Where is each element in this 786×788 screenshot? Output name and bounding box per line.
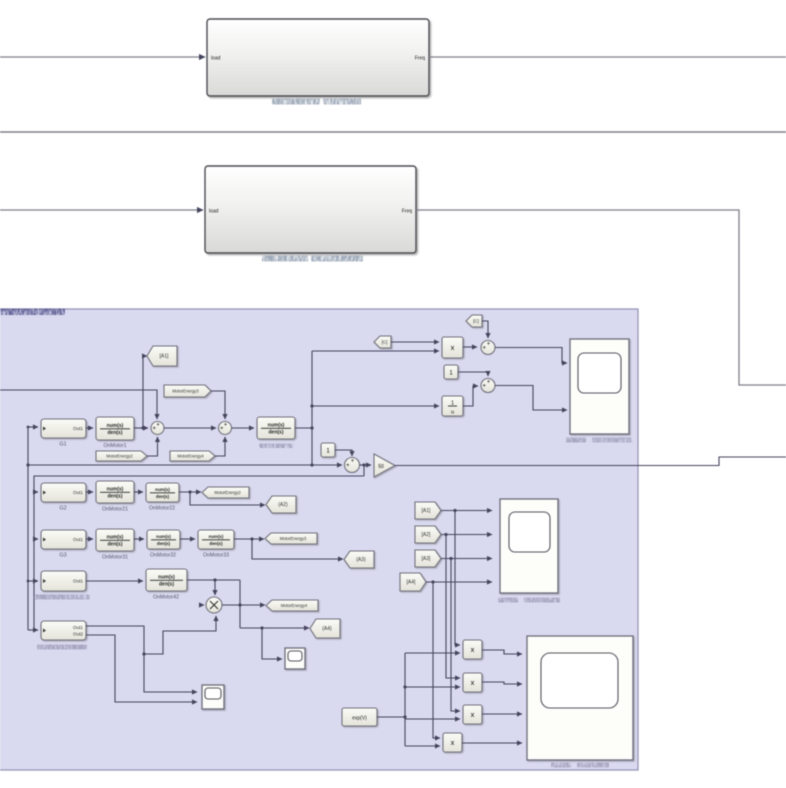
vertical x240 down bbox=[239, 580, 241, 628]
svg-text:Freq: Freq bbox=[415, 56, 426, 62]
svg-text:den(s): den(s) bbox=[159, 582, 174, 588]
wire G2 to OnMotor21 bbox=[86, 491, 93, 493]
transfer fn OnMotor21 bbox=[96, 481, 134, 503]
svg-text:MotorEnergy4: MotorEnergy4 bbox=[281, 603, 308, 608]
svg-text:num(s): num(s) bbox=[107, 534, 124, 540]
subsystem storage SOC state bbox=[41, 621, 86, 640]
junction bus r4 bbox=[27, 580, 30, 583]
product X4 bbox=[443, 733, 462, 752]
wire OnMotor33 to goto MotorEnergy3 bbox=[234, 538, 264, 540]
svg-text:50: 50 bbox=[378, 464, 384, 470]
exp block bbox=[342, 708, 377, 726]
wire to divide block input bbox=[312, 405, 439, 407]
goto tag A1 bbox=[147, 346, 177, 366]
junction to goto A1 bbox=[141, 426, 144, 429]
svg-text:[A3]: [A3] bbox=[422, 556, 432, 562]
svg-text:den(s): den(s) bbox=[269, 430, 284, 436]
wire OnMotor1 to sum1 bbox=[134, 427, 148, 429]
svg-text:num(s): num(s) bbox=[158, 574, 175, 580]
wire OnMotor42 out bbox=[187, 579, 240, 581]
junction x240-output bbox=[238, 603, 241, 606]
wire out of block1 Freq bbox=[429, 56, 786, 58]
svg-text:+: + bbox=[487, 342, 491, 348]
svg-text:[A1]: [A1] bbox=[160, 354, 170, 360]
svg-text:G3: G3 bbox=[59, 553, 66, 559]
wire x240 to goto A4 bbox=[240, 627, 309, 629]
svg-text:den(s): den(s) bbox=[209, 541, 223, 546]
feedback return y=476 bbox=[34, 476, 364, 630]
goto tag A2 bbox=[266, 496, 296, 513]
from tag MotorEnergy3 (row1) bbox=[164, 385, 211, 397]
junction r5 out1 bbox=[142, 652, 145, 655]
subsystem G1 bbox=[41, 419, 86, 438]
wire G3 to OnMotor31 bbox=[86, 538, 93, 540]
goto tag MotorEnergy2 bbox=[202, 487, 249, 498]
wire r5 out1 branch to scope5 p1 bbox=[144, 654, 197, 692]
transfer fn OnMotor32 bbox=[147, 530, 180, 549]
svg-text:exp(V): exp(V) bbox=[352, 716, 367, 722]
wire A4 to scope2 p4 bbox=[426, 581, 492, 583]
wire divide to sum4 left bbox=[463, 386, 478, 406]
svg-text:[C]: [C] bbox=[473, 319, 479, 324]
svg-text:OnMotor1: OnMotor1 bbox=[103, 443, 126, 449]
wire into subsystem block2 (load) bbox=[0, 209, 203, 211]
wire bus to G2 bbox=[34, 491, 38, 493]
goto tag A3 bbox=[344, 551, 374, 568]
svg-text:num(s): num(s) bbox=[209, 534, 224, 539]
product X3 bbox=[463, 705, 482, 724]
wire C1 to multiply bbox=[391, 341, 439, 343]
scope2 block bbox=[500, 499, 558, 593]
wire Xt to sum3 bbox=[463, 346, 477, 348]
wire left stub into Xc bbox=[200, 604, 204, 606]
sum junction sum1 bbox=[151, 422, 164, 435]
wire top input into sum1 top bbox=[0, 390, 157, 419]
goto tag MotorEnergy3 bbox=[265, 533, 317, 544]
label scope3 part2 bbox=[577, 763, 609, 768]
divide block 1/u bbox=[442, 396, 463, 416]
subsystem motor MPPT state bbox=[41, 571, 86, 591]
from tag A1 bbox=[415, 502, 441, 519]
svg-text:Out2: Out2 bbox=[73, 631, 83, 636]
wire sum5 to gain bbox=[360, 464, 372, 466]
svg-text:+: + bbox=[224, 423, 228, 429]
wire X2 to scope3 p2 bbox=[482, 682, 522, 684]
goto tag A4 bbox=[310, 619, 340, 638]
wire bus to R5 bbox=[28, 629, 38, 631]
junction onmotor42 out a bbox=[213, 578, 216, 581]
svg-text:den(s): den(s) bbox=[108, 430, 123, 436]
label wind penetration 25% bbox=[259, 444, 293, 449]
junction TF25 out bbox=[310, 426, 313, 429]
bundle wire A2 down to X2 bbox=[446, 535, 460, 679]
junction a4-scope branch bbox=[260, 626, 263, 629]
subsystem block1 (wind 29%, no freq regulation) bbox=[207, 19, 429, 96]
scope5 small bbox=[202, 685, 224, 709]
svg-text:OnMotor22: OnMotor22 bbox=[149, 506, 175, 512]
svg-text:[A4]: [A4] bbox=[407, 580, 417, 586]
svg-text:G1: G1 bbox=[59, 442, 66, 448]
feedback horizontal y=465 to sum5 bbox=[28, 464, 342, 466]
wire OnMotor32 to OnMotor33 bbox=[180, 538, 195, 540]
svg-text:num(s): num(s) bbox=[107, 486, 124, 492]
wire exp to X1 in2 bbox=[405, 652, 460, 654]
junction feedback at sum5 out bbox=[362, 463, 365, 466]
wire bus to G3 bbox=[34, 538, 38, 540]
svg-text:Out1: Out1 bbox=[73, 490, 83, 495]
svg-text:(A4): (A4) bbox=[322, 626, 332, 632]
svg-text:x: x bbox=[451, 343, 455, 352]
vertical TF25 branch bbox=[311, 351, 313, 465]
svg-text:+: + bbox=[156, 423, 160, 429]
wire exp to X4 in2 bbox=[405, 745, 440, 747]
transfer fn OnMotor1 bbox=[96, 417, 134, 440]
junction row3 branch bbox=[250, 537, 253, 540]
svg-text:den(s): den(s) bbox=[108, 494, 123, 500]
wire R5 out1 path to Xc bottom bbox=[86, 616, 216, 654]
svg-text:Out1: Out1 bbox=[73, 625, 83, 630]
svg-text:Freq: Freq bbox=[402, 209, 413, 215]
wire OnMotor21 to OnMotor22 bbox=[134, 491, 143, 493]
svg-text:OnMotor31: OnMotor31 bbox=[102, 555, 128, 561]
wire into subsystem block1 (load) bbox=[0, 56, 205, 58]
constant block 1a bbox=[444, 365, 458, 379]
transfer fn OnMotor33 bbox=[198, 530, 234, 549]
constant block 1b bbox=[321, 443, 335, 457]
wire A2 to scope2 p2 bbox=[441, 534, 492, 536]
svg-text:x: x bbox=[471, 645, 475, 654]
svg-text:den(s): den(s) bbox=[108, 542, 123, 548]
junction a1 down bbox=[453, 509, 456, 512]
title: penetration 29% part1 bbox=[0, 309, 38, 316]
label: wind penetration 25% part2 bbox=[311, 256, 363, 262]
wire R4 to OnMotor42 bbox=[86, 580, 143, 582]
label scope3 part1 bbox=[551, 763, 571, 768]
transfer fn wind25 bbox=[257, 417, 295, 439]
wire const1a to sum4 top bbox=[458, 372, 488, 376]
product X2 bbox=[463, 673, 482, 692]
svg-text:x: x bbox=[471, 678, 475, 687]
sum junction sum2 bbox=[219, 422, 232, 435]
sum junction sum3 bbox=[481, 341, 495, 355]
wire G1 to OnMotor1 bbox=[86, 427, 93, 429]
svg-text:(A3): (A3) bbox=[356, 557, 366, 563]
wire X4 to scope3 p4 bbox=[462, 742, 522, 744]
wire branch to scope4 bbox=[262, 628, 282, 659]
svg-text:x: x bbox=[471, 710, 475, 719]
from tag MotorEnergy4 (row1) bbox=[170, 451, 215, 461]
wire gain output exits right bbox=[395, 457, 786, 466]
wire bus to G1 bbox=[28, 426, 38, 428]
junction a2 down bbox=[444, 533, 447, 536]
svg-text:OnMotor42: OnMotor42 bbox=[153, 595, 179, 601]
svg-text:(A2): (A2) bbox=[278, 502, 288, 508]
exp vertical distribution bbox=[404, 653, 406, 746]
subsystem block2 (wind 25%, MPPT) bbox=[205, 166, 416, 253]
wire sum3 to scope1 port1 bbox=[495, 348, 567, 364]
svg-text:[C]: [C] bbox=[382, 340, 388, 345]
wire exp to X3 in2 bbox=[405, 718, 460, 720]
wire branch to goto A2 bbox=[190, 492, 265, 505]
svg-text:MotorEnergy2: MotorEnergy2 bbox=[106, 454, 133, 459]
label scope1 part1 bbox=[566, 438, 586, 443]
lavender subsystem area background bbox=[0, 309, 638, 770]
from tag C1 bbox=[374, 336, 391, 348]
wire X1 to scope3 p1 bbox=[482, 650, 522, 654]
label: wind penetration 29% part2 bbox=[323, 99, 361, 105]
left bus vertical bbox=[27, 427, 29, 630]
wire branch to goto A3 bbox=[252, 539, 343, 559]
subsystem G3 bbox=[41, 530, 86, 549]
junction exp x2 bbox=[403, 685, 406, 688]
svg-text:MotorEnergy2: MotorEnergy2 bbox=[214, 490, 241, 495]
title: penetration 29% part2 bbox=[39, 309, 65, 316]
wire sum2 to TF25 bbox=[232, 427, 255, 429]
wire to multiply upper-2 input bbox=[312, 350, 439, 352]
from tag MotorEnergy2 (row1) bbox=[96, 451, 147, 461]
svg-text:den(s): den(s) bbox=[157, 541, 171, 546]
svg-text:load: load bbox=[211, 56, 221, 62]
svg-text:Out1: Out1 bbox=[73, 426, 83, 431]
from tag A2 bbox=[415, 526, 441, 543]
feedback drop from sum5 output bbox=[363, 465, 365, 476]
svg-text:MotorEnergy3: MotorEnergy3 bbox=[172, 389, 199, 394]
product junction Xc bbox=[206, 597, 222, 613]
svg-text:+: + bbox=[346, 463, 350, 469]
junction at y406 bbox=[310, 404, 313, 407]
svg-text:OnMotor32: OnMotor32 bbox=[150, 553, 176, 559]
scope3 block bbox=[527, 636, 633, 760]
label: wind penetration 29% part1 bbox=[272, 99, 320, 105]
junction a4 down bbox=[431, 580, 434, 583]
svg-text:OnMotor21: OnMotor21 bbox=[102, 507, 128, 513]
wire MotorEnergy3 to sum2 top bbox=[211, 391, 225, 419]
wire exp output bbox=[377, 716, 405, 718]
wire sum4 to scope1 port2 bbox=[495, 386, 567, 411]
svg-text:[A2]: [A2] bbox=[422, 532, 432, 538]
bundle wire A4 down to X4 bbox=[433, 582, 440, 738]
transfer fn OnMotor31 bbox=[96, 529, 134, 551]
bundle wire A1 down to X1 bbox=[455, 511, 460, 646]
wire MotorEnergy2 to sum1 bottom bbox=[147, 437, 158, 456]
label scope2 part1 bbox=[498, 598, 518, 603]
wire into Xc top bbox=[214, 580, 216, 595]
svg-text:MotorEnergy4: MotorEnergy4 bbox=[177, 454, 204, 459]
sum junction sum5 bbox=[345, 458, 360, 473]
scope1 block bbox=[570, 339, 629, 434]
label motor MPPT state bbox=[34, 595, 90, 600]
from tag A4 bbox=[400, 573, 426, 591]
long horizontal wire y=132 bbox=[0, 131, 786, 133]
label scope1 part2 bbox=[592, 438, 632, 443]
scope4 small bbox=[285, 648, 305, 669]
goto tag MotorEnergy4 bbox=[266, 600, 318, 611]
wire A1 to scope2 p1 bbox=[441, 510, 492, 512]
product block Xt bbox=[442, 337, 463, 358]
svg-text:num(s): num(s) bbox=[107, 423, 124, 429]
wire OnMotor31 to OnMotor32 bbox=[134, 538, 144, 540]
wire A3 to scope2 p3 bbox=[441, 558, 492, 560]
wire out of block2 Freq going right then down bbox=[416, 210, 786, 385]
label scope2 part2 bbox=[524, 598, 560, 603]
label: wind penetration 25% part1 bbox=[262, 256, 308, 262]
wire sum1 to sum2 bbox=[164, 427, 216, 429]
svg-text:u: u bbox=[451, 410, 454, 416]
product X1 bbox=[463, 640, 482, 659]
wire TF25 output to vertical bbox=[295, 427, 312, 429]
svg-text:load: load bbox=[209, 209, 219, 215]
wire OnMotor22 to goto MotorEnergy2 bbox=[179, 491, 201, 493]
junction bus-y465 bbox=[26, 463, 29, 466]
svg-text:G2: G2 bbox=[59, 506, 66, 512]
label storage SOC state bbox=[37, 645, 87, 650]
wire X3 to scope3 p3 bbox=[482, 713, 522, 715]
junction row2 branch bbox=[188, 490, 191, 493]
sum junction sum4 bbox=[481, 379, 495, 393]
wire up to goto A1 bbox=[143, 356, 147, 428]
svg-text:+: + bbox=[351, 459, 355, 465]
junction exp out bbox=[403, 715, 406, 718]
wire exp to X2 in2 bbox=[405, 686, 460, 688]
transfer fn OnMotor42 bbox=[146, 569, 187, 591]
junction at y465 bbox=[310, 463, 313, 466]
wire MotorEnergy4 to sum2 bottom bbox=[215, 437, 225, 456]
wire Xc output to goto MotorEnergy4 bbox=[222, 604, 265, 606]
from tag C2 bbox=[466, 315, 482, 327]
junction bus top bbox=[27, 426, 30, 429]
gain block triangle bbox=[374, 454, 395, 477]
svg-text:num(s): num(s) bbox=[268, 422, 285, 428]
wire const1b to sum5 top bbox=[335, 450, 352, 456]
transfer fn OnMotor22 bbox=[146, 483, 179, 502]
svg-text:den(s): den(s) bbox=[156, 494, 170, 499]
svg-text:OnMotor33: OnMotor33 bbox=[203, 553, 229, 559]
svg-text:Out1: Out1 bbox=[73, 579, 83, 584]
svg-text:+: + bbox=[487, 380, 491, 386]
svg-text:x: x bbox=[451, 738, 455, 747]
from tag A3 bbox=[415, 550, 441, 567]
junction a3 down bbox=[449, 557, 452, 560]
svg-text:num(s): num(s) bbox=[155, 487, 170, 492]
bundle wire A3 down to X3 bbox=[451, 559, 460, 712]
subsystem G2 bbox=[41, 483, 86, 502]
wire bus to R4 bbox=[28, 580, 38, 582]
svg-text:num(s): num(s) bbox=[156, 534, 171, 539]
wire C2 to sum3 top bbox=[482, 321, 488, 338]
svg-text:Out1: Out1 bbox=[73, 537, 83, 542]
wire R5 out2 to scope5 p2 bbox=[86, 635, 197, 702]
svg-text:MotorEnergy3: MotorEnergy3 bbox=[280, 536, 307, 541]
svg-text:[A1]: [A1] bbox=[422, 508, 432, 514]
